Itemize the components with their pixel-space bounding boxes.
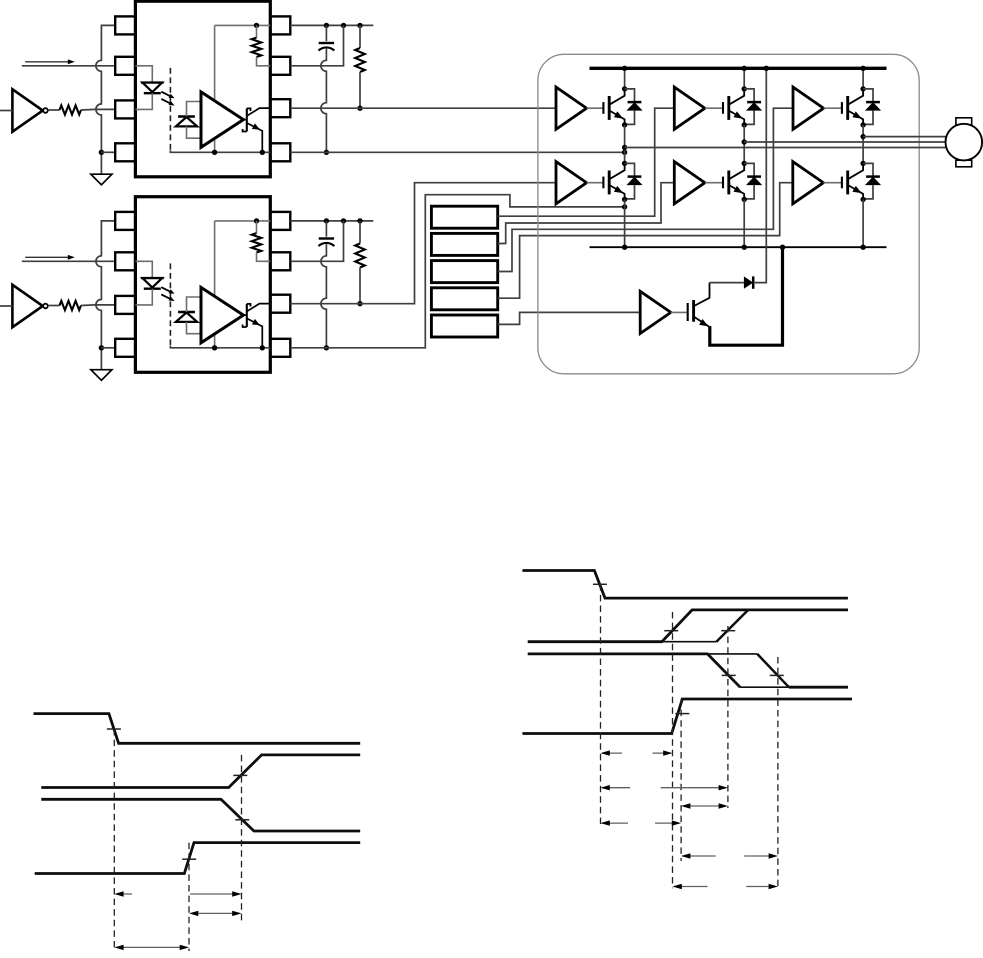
transistor Q6 IGBT (841, 177, 843, 189)
wire chopper collector to diode (710, 282, 744, 284)
buffer U5A gate driver (674, 87, 705, 129)
capacitor C2 bypass (325, 221, 327, 237)
wire gate lead (705, 182, 723, 184)
dimension row2 right (661, 787, 724, 789)
pin 8 (270, 212, 290, 230)
wire gate lead (823, 182, 842, 184)
dimension row1 right (653, 752, 670, 754)
dimension row2 left (602, 787, 630, 789)
junction collector (860, 86, 865, 91)
edge tick (770, 674, 784, 676)
transistor Q4 IGBT (602, 177, 604, 189)
wire leg1 midpoint (624, 125, 626, 163)
edge tick (233, 774, 247, 776)
wire resistor to pin 7 (257, 57, 271, 66)
DC- bus (590, 246, 887, 248)
diode D5 freewheel (744, 163, 754, 176)
wire buffer to resistor (48, 305, 60, 307)
wire chopper emitter loop (710, 248, 783, 345)
dimension row4 right (655, 822, 672, 824)
wire phase B to motor (744, 141, 945, 143)
wire output emitter rail (170, 150, 270, 152)
wire leg1 to bus- (624, 199, 626, 247)
photodiode D12 (178, 115, 195, 117)
wire input stub (0, 110, 12, 112)
dashed guide t1 (188, 843, 190, 951)
junction bus+/leg2 (742, 66, 747, 71)
edge tick (593, 583, 607, 585)
wire buffer to resistor (48, 109, 60, 111)
diode D6 freewheel (863, 163, 873, 176)
capacitor C1 bypass (325, 25, 327, 41)
transistor Q21 output stage with hysteresis (243, 314, 246, 316)
buffer U5B gate driver (674, 162, 705, 204)
junction bus+/leg1 (622, 66, 627, 71)
wire leg2 collector feed (743, 68, 745, 89)
junction emitter lower (860, 197, 865, 202)
pin 6 (270, 99, 290, 117)
junction vcc/resistor (254, 23, 259, 28)
junction (341, 23, 346, 28)
wire phase C to motor (863, 136, 946, 138)
light emission arrows (161, 287, 172, 293)
wire input stub (0, 305, 12, 307)
edge tick (664, 630, 678, 632)
transistor Q3 IGBT (841, 102, 843, 114)
buffer U7 gate driver (640, 291, 671, 333)
wire internal vcc rail (215, 24, 271, 26)
LED D11 (141, 81, 164, 83)
waveform VO1 max edge (662, 641, 717, 643)
diode D1 freewheel (625, 89, 635, 102)
dashed guide t2 (241, 755, 243, 921)
junction bus-/leg3 (860, 245, 865, 250)
pin 2 (115, 252, 135, 270)
waveform VO3 rising (35, 843, 361, 874)
wire block B5 to driver (498, 312, 641, 324)
waveform VO2 falling (41, 799, 360, 831)
pin 5 (270, 339, 290, 357)
junction rail (260, 345, 265, 350)
pin 7 (270, 57, 290, 75)
transistor Q5 IGBT (722, 177, 724, 189)
wire gate lead (705, 107, 723, 109)
pin 3 (115, 100, 135, 118)
wire chopper gate lead (671, 311, 688, 313)
wire photodiode loop (187, 297, 203, 312)
wire pin7 to vcc node (290, 25, 343, 65)
dashed guide T1 (672, 612, 674, 888)
wire diode to bus+ (753, 68, 766, 282)
junction resistor/pin6 wire (357, 106, 362, 111)
gate drive block B5 (431, 315, 497, 337)
resistor R21 series (60, 301, 82, 310)
wire to pin 4 (101, 151, 115, 153)
junction emitter (742, 122, 747, 127)
diode D4 freewheel (625, 163, 635, 176)
pin 7 (270, 252, 290, 270)
wire block B1 to driver (498, 108, 675, 216)
resistor R23 load (359, 221, 361, 244)
op-amp U2B detector amplifier (201, 287, 243, 342)
junction rail (212, 345, 217, 350)
wire amp to output rail (214, 335, 216, 348)
junction (357, 23, 362, 28)
waveform VO2 max edge (708, 653, 758, 655)
wire pin2 to LED anode (135, 66, 152, 83)
dimension arrow t0-t1 (117, 946, 187, 948)
wire bus pin1-pin4 with hops (96, 25, 115, 174)
junction resistor/pin6 wire (357, 301, 362, 306)
wire input to pin 2 (22, 65, 115, 67)
junction emitter lower (742, 197, 747, 202)
waveform VIN (right diagram) (522, 571, 848, 599)
junction (324, 23, 329, 28)
wire cap to pin5 rail with hops (321, 49, 327, 153)
edge tick (235, 819, 249, 821)
gate drive block B1 (431, 206, 497, 228)
wire gate lead (587, 182, 604, 184)
junction (357, 218, 362, 223)
gate drive block B4 (431, 288, 497, 310)
junction collector (742, 86, 747, 91)
pin 3 (115, 296, 135, 314)
wire block B4 to driver (498, 183, 793, 299)
dimension row5 right (744, 855, 775, 857)
pin 2 (115, 57, 135, 75)
transistor Q2 IGBT (722, 102, 724, 114)
junction emitter (622, 122, 627, 127)
junction phase (622, 145, 627, 150)
buffer U6A gate driver (793, 87, 824, 129)
dimension arrow t1-t2 (191, 912, 239, 914)
resistor R22 internal (256, 221, 258, 233)
junction pin4/ground (99, 345, 104, 350)
pin 6 (270, 295, 290, 313)
pin 1 (115, 212, 135, 230)
wire gate lead (824, 107, 842, 109)
junction cap/rail (324, 345, 329, 350)
LED D21 (141, 277, 164, 279)
DC+ bus (590, 67, 887, 70)
wire opto2 pin5 to leg1 lower emitter (290, 195, 624, 348)
junction collector lower (742, 161, 747, 166)
transistor Q1 IGBT (602, 102, 604, 114)
transistor Q11 output stage with hysteresis (243, 119, 246, 121)
motor M1 (956, 118, 972, 125)
dashed guide t0 (113, 729, 115, 951)
wire LED cathode to pin 3 (135, 289, 152, 305)
dimension row6 left (674, 886, 708, 888)
wire resistor to pin 3 (81, 304, 115, 307)
diode D3 freewheel (863, 89, 873, 102)
wire pin8 Vcc stub (290, 24, 373, 26)
wire opto2 pin6 to gate driver leg1 bottom (290, 183, 556, 304)
edge tick (107, 728, 121, 730)
light emission arrows (161, 92, 172, 98)
optocoupler U2 DIP-8 body (135, 197, 270, 373)
wire resistor to pin 7 (257, 253, 271, 262)
wire to pin 4 (101, 347, 115, 349)
junction pin4/ground (99, 150, 104, 155)
resistor R12 internal (256, 25, 258, 37)
signal flow arrow annotation (25, 256, 68, 258)
wire leg2 to bus- (743, 199, 745, 247)
junction vcc/resistor (254, 218, 259, 223)
diode D2 freewheel (744, 89, 754, 102)
junction bus-/leg1 (622, 245, 627, 250)
wire cap to pin5 rail with hops (321, 244, 327, 348)
wire opto1 pin6 to gate driver leg1 top (290, 107, 556, 109)
wire leg3 to bus- (862, 199, 864, 247)
ground GND1 (91, 174, 112, 185)
internal shield (dashed) (169, 263, 171, 345)
edge tick (182, 858, 196, 860)
ground GND2 (91, 370, 112, 381)
wire pin2 to LED anode (135, 261, 152, 278)
inverter U2A input buffer (12, 285, 42, 327)
junction rail (212, 150, 217, 155)
op-amp U1B detector amplifier (201, 92, 243, 147)
junction phase (860, 134, 865, 139)
wire amp to output rail (214, 139, 216, 152)
wire leg2 midpoint (743, 125, 745, 163)
wire phase A to motor (625, 147, 946, 149)
pin 4 (115, 339, 135, 357)
buffer U4B gate driver (556, 162, 587, 204)
junction emitter lower (622, 197, 627, 202)
wire block B2 to driver (498, 183, 675, 244)
waveform VO1 min edge (528, 610, 848, 642)
dimension row3 both (684, 805, 726, 807)
wire resistor to pin 3 (81, 108, 115, 111)
dashed guide T0 (600, 584, 602, 826)
junction (341, 218, 346, 223)
waveform VO3 rising (522, 699, 852, 734)
junction collector lower (860, 161, 865, 166)
wire pin8 Vcc stub (290, 220, 373, 222)
wire Vcc feed to amp (214, 25, 216, 100)
waveform VO2 low (789, 686, 848, 689)
dimension row4 left (602, 822, 628, 824)
junction collector lower (622, 161, 627, 166)
junction bus+/diode feed (764, 66, 769, 71)
junction bus-/chopper (780, 245, 785, 250)
transistor Q7 brake chopper IGBT (687, 303, 689, 321)
photodiode D22 (178, 311, 195, 313)
edge tick (722, 674, 736, 676)
dashed guide T2 (727, 626, 729, 808)
IPM module outline (538, 54, 919, 374)
waveform VIN (left diagram) (34, 714, 361, 744)
junction cap/rail (324, 150, 329, 155)
wire LED cathode to pin 3 (135, 93, 152, 109)
junction pin5/leg1 (622, 150, 627, 155)
waveform VO1 rising (41, 755, 360, 788)
dimension arrow tPHL left (116, 893, 132, 895)
inverter U1A input buffer (12, 89, 42, 131)
junction emitter (860, 122, 865, 127)
wire gate lead (587, 107, 604, 109)
junction bus+/leg3 (860, 66, 865, 71)
wire leg1 collector feed (624, 68, 626, 89)
wire internal vcc rail (215, 220, 271, 222)
optocoupler U1 DIP-8 body (135, 1, 270, 177)
wire pin7 to vcc node (290, 221, 343, 261)
gate drive block B2 (431, 233, 497, 255)
junction collector (622, 86, 627, 91)
wire photodiode loop (187, 102, 203, 117)
resistor R11 series (60, 105, 82, 114)
junction phase (742, 139, 747, 144)
wire output emitter rail (170, 346, 270, 348)
junction (324, 218, 329, 223)
edge tick (721, 630, 735, 632)
buffer U4A gate driver (556, 87, 587, 129)
waveform VO2 min edge (528, 654, 740, 687)
junction pin5/emitter (622, 204, 627, 209)
edge tick (675, 713, 689, 715)
resistor R13 load (359, 25, 361, 48)
dimension arrow tPHL right (190, 893, 236, 895)
wire leg3 midpoint (862, 125, 864, 163)
junction rail (260, 150, 265, 155)
wire leg3 collector feed (862, 68, 864, 89)
dashed guide T1b (680, 699, 682, 861)
buffer U6B gate driver (793, 162, 824, 204)
dimension row6 right (746, 886, 775, 888)
wire block B3 to driver (498, 108, 793, 271)
pin 4 (115, 143, 135, 161)
pin 5 (270, 143, 290, 161)
pin 1 (115, 16, 135, 34)
pin 8 (270, 16, 290, 34)
wire Vcc feed to amp (214, 221, 216, 296)
wire input to pin 2 (22, 260, 115, 262)
junction bus-/leg2 (742, 245, 747, 250)
gate drive block B3 (431, 261, 497, 283)
dimension row5 left (683, 855, 716, 857)
wire opto1 pin5 to phase node (290, 151, 624, 153)
dashed guide T3 (777, 657, 779, 888)
wire bus pin1-pin4 with hops (96, 221, 115, 370)
diode D7 brake (744, 276, 753, 288)
signal flow arrow annotation (25, 61, 68, 63)
dimension row1 left (602, 752, 622, 754)
internal shield (dashed) (169, 68, 171, 150)
